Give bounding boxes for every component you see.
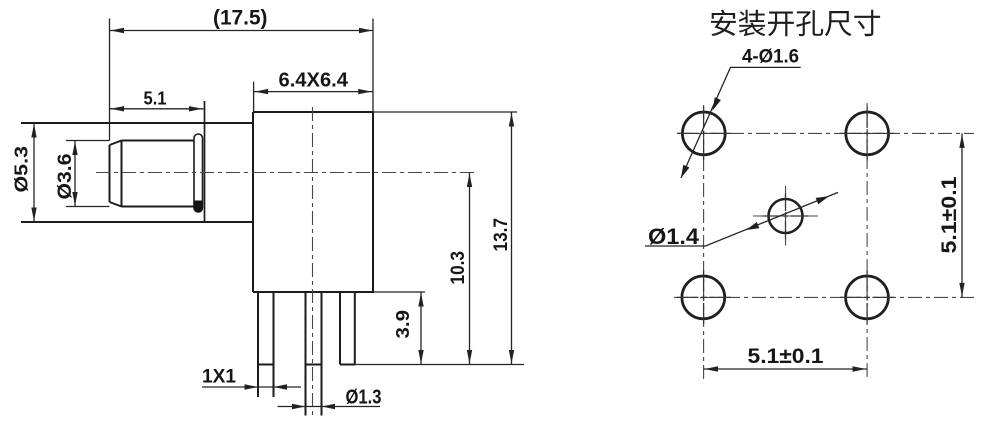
dimension 13.7 line xyxy=(511,112,513,365)
centerline: horizontal axis xyxy=(96,172,476,174)
leader 4-d1.6 line xyxy=(681,67,801,178)
side view: center pin step tick xyxy=(306,364,322,366)
svg-text:Ø5.3: Ø5.3 xyxy=(12,146,32,193)
hole pattern: bottom-right hole xyxy=(846,276,889,319)
extension line: pin bottom to right xyxy=(355,364,524,366)
leader d1.4 line xyxy=(645,192,838,246)
side view: outer cylinder top edge xyxy=(21,122,253,124)
side view: step edge at gasket right xyxy=(204,101,206,222)
side view: body right edge xyxy=(372,112,374,292)
extension line: left at x109.5 xyxy=(109,19,111,141)
side view: center pin left edge xyxy=(305,292,307,416)
side view: barrel bottom chamfer xyxy=(110,202,122,207)
svg-text:5.1: 5.1 xyxy=(144,89,167,109)
dimension diameter 5.3 line xyxy=(33,123,35,222)
centerline: body vertical axis xyxy=(312,107,314,417)
centerline: bottom holes horizontal xyxy=(674,296,974,298)
hole pattern: top-left hole xyxy=(682,112,725,155)
hole pattern: bottom-left hole xyxy=(682,276,725,319)
dimension (17.5) line xyxy=(110,30,374,32)
title: mounting hole dimensions (drawn glyph outlines) xyxy=(711,10,880,37)
dimension 6.4x6.4 line xyxy=(254,91,373,93)
dimension 5.1 bottom line xyxy=(704,368,868,370)
side view: barrel top edge xyxy=(122,140,195,142)
centerline: right holes vertical xyxy=(866,103,868,381)
side view: right pin right edge xyxy=(354,292,356,365)
crosshair: top-right hole xyxy=(840,107,894,161)
dimension diameter 3.6 line xyxy=(74,141,76,207)
svg-text:5.1±0.1: 5.1±0.1 xyxy=(748,344,824,368)
svg-text:5.1±0.1: 5.1±0.1 xyxy=(937,176,961,253)
side view: barrel bottom edge xyxy=(122,206,195,208)
dimension 1x1 line xyxy=(202,386,301,388)
svg-text:1X1: 1X1 xyxy=(202,367,236,388)
side view: gasket capsule outline xyxy=(194,134,203,212)
side view: barrel chamfer edge vertical xyxy=(121,141,123,207)
extension line: right at x373 above body xyxy=(372,19,374,113)
side view: right pin bottom edge xyxy=(340,364,355,366)
svg-text:Ø1.3: Ø1.3 xyxy=(346,387,382,409)
extension line: 6.4 left xyxy=(253,82,255,112)
svg-text:(17.5): (17.5) xyxy=(213,7,268,30)
side view: left pin right edge xyxy=(273,292,275,397)
dimension diameter 1.3 line xyxy=(278,406,381,408)
extension lines: diameter 3.6 xyxy=(66,141,110,207)
extension line: body top to right xyxy=(373,111,517,113)
crosshair: bottom-right hole xyxy=(840,271,894,325)
side view: center pin right edge xyxy=(321,292,323,416)
side view: outer cylinder bottom edge xyxy=(21,221,253,223)
dimension 5.1 line xyxy=(110,108,204,110)
extension line: body bottom right for 3.9 xyxy=(374,291,425,293)
side view: right pin left edge xyxy=(339,292,341,365)
svg-text:Ø3.6: Ø3.6 xyxy=(55,154,76,200)
svg-text:13.7: 13.7 xyxy=(491,218,512,252)
side view: barrel left end vertical xyxy=(109,145,111,202)
crosshair: bottom-left hole xyxy=(677,271,731,325)
side view: body top edge xyxy=(253,111,373,113)
centerline: top holes horizontal xyxy=(678,132,974,134)
svg-text:4-Ø1.6: 4-Ø1.6 xyxy=(742,47,799,68)
hole pattern: top-right hole xyxy=(846,112,889,155)
crosshair: center hole dark xyxy=(763,194,808,239)
hole pattern: center hole xyxy=(769,199,803,233)
side view: gasket dark bottom fill xyxy=(194,201,203,213)
centerline: left holes vertical xyxy=(703,105,705,381)
side view: left pin bottom tick xyxy=(258,364,274,366)
svg-text:Ø1.4: Ø1.4 xyxy=(648,224,700,249)
svg-text:3.9: 3.9 xyxy=(393,310,413,339)
dimension 10.3 line xyxy=(469,173,471,365)
dimension 3.9 line xyxy=(420,292,422,365)
side view: barrel top chamfer xyxy=(110,141,122,146)
dimension 5.1 right line xyxy=(961,133,963,297)
side view: body left edge xyxy=(252,112,254,292)
side view: body bottom edge xyxy=(253,291,374,293)
svg-text:10.3: 10.3 xyxy=(448,251,469,285)
svg-text:6.4X6.4: 6.4X6.4 xyxy=(279,70,349,92)
crosshair: top-left hole xyxy=(677,107,731,161)
centerline: center hole vertical xyxy=(785,186,787,246)
side view: left pin left edge xyxy=(257,292,259,397)
centerline: center hole horizontal xyxy=(753,215,818,217)
